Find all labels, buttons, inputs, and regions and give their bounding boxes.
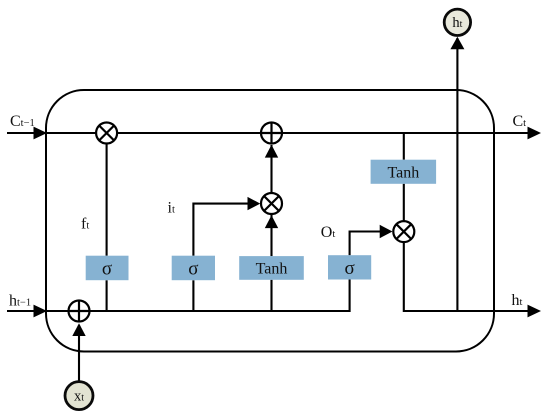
arrowhead into ht circle: [450, 37, 464, 50]
arrowhead C entry: [34, 127, 48, 140]
Tanh box right (cell output activation): [371, 160, 437, 184]
wire f-gate vertical: [106, 133, 108, 311]
label Ct-1: [10, 113, 35, 130]
wire o-gate elbow to output multiply: [350, 232, 381, 256]
arrowhead h exit: [528, 305, 542, 318]
cell boundary rounded rectangle: [46, 90, 494, 352]
svg-text:Ct: Ct: [513, 113, 527, 130]
wire C-line horizontal: [7, 132, 529, 134]
label ht right: [512, 292, 523, 309]
wire output column from C-line through Tanh to multiply: [403, 133, 405, 242]
Tanh box middle (candidate): [239, 256, 304, 280]
plus node on C-line: [261, 123, 282, 144]
label ht-1: [9, 293, 31, 310]
plus node on h-line bottom left: [69, 301, 90, 322]
svg-text:Tanh: Tanh: [388, 165, 420, 182]
sigma box 1 (forget gate): [86, 256, 129, 281]
svg-text:ft: ft: [81, 216, 89, 233]
arrowhead xt into plus node: [72, 323, 85, 336]
wire xt stem: [78, 325, 80, 382]
svg-text:σ: σ: [102, 259, 112, 280]
label ft: [81, 216, 89, 233]
svg-text:σ: σ: [188, 259, 198, 280]
svg-text:σ: σ: [344, 258, 354, 279]
multiply node on C-line (forget gate): [96, 123, 117, 144]
svg-text:Tanh: Tanh: [256, 261, 288, 278]
output multiply node: [393, 221, 414, 242]
middle multiply node (input gate): [261, 193, 282, 214]
xt input circle bottom: [65, 382, 93, 410]
sigma box 3 (output gate): [328, 255, 371, 279]
arrowhead Tanh into middle multiply: [265, 215, 278, 228]
arrowhead i-gate into middle multiply: [248, 197, 261, 210]
wire candidate column vertical: [270, 145, 272, 311]
arrowhead into plus node on C-line: [265, 145, 278, 158]
arrowhead o-gate into output multiply: [380, 225, 393, 238]
svg-text:Ot: Ot: [321, 224, 336, 241]
svg-text:it: it: [168, 200, 175, 217]
wire ht branch vertical to top: [456, 38, 458, 311]
svg-text:Ct−1: Ct−1: [10, 113, 35, 130]
wire i-gate vertical and elbow to multiply node: [193, 204, 248, 311]
ht output circle top: [444, 9, 470, 35]
arrowhead C exit: [528, 127, 542, 140]
label Ot: [321, 224, 336, 241]
arrowhead h entry: [34, 305, 48, 318]
svg-text:ht: ht: [512, 292, 523, 309]
svg-text:ht−1: ht−1: [9, 293, 31, 310]
label it: [168, 200, 175, 217]
wire h-line left segment with corner up to sigma3: [7, 280, 350, 312]
sigma box 2 (input gate): [172, 256, 215, 281]
label Ct: [513, 113, 527, 130]
wire h-line output segment from multiply node down and right: [404, 242, 529, 311]
